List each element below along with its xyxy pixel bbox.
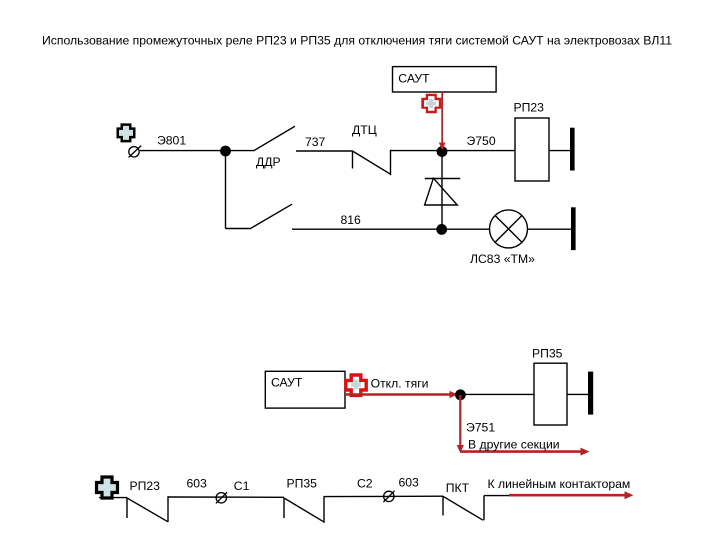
label РП35 (coil) — [532, 346, 563, 360]
svg-text:РП23: РП23 — [514, 100, 545, 114]
svg-text:Использование промежуточных ре: Использование промежуточных реле РП23 и … — [42, 34, 672, 48]
label Э750 — [467, 134, 496, 148]
label Э751 — [466, 421, 495, 435]
red signal wire САУТ to node B — [439, 92, 446, 150]
node C (junction dot) — [436, 224, 447, 235]
svg-text:ДТЦ: ДТЦ — [352, 123, 377, 137]
label 816 — [341, 213, 362, 227]
wire start bottom row — [99, 497, 127, 499]
title — [42, 34, 672, 48]
wire from node A down — [225, 151, 227, 229]
node D (junction dot) — [455, 389, 466, 400]
svg-text:С1: С1 — [234, 479, 250, 493]
contact ПКТ (break contact) — [443, 496, 484, 521]
svg-text:ЛС83 «ТМ»: ЛС83 «ТМ» — [470, 252, 535, 266]
red wire node D down (Э751) — [457, 395, 464, 453]
label 603 (right) — [399, 475, 420, 489]
wire РП35 to С2 — [324, 495, 443, 497]
ground bus bar (РП35 row) — [588, 372, 593, 415]
svg-text:САУТ: САУТ — [398, 71, 430, 85]
block САУТ (bottom) — [265, 371, 345, 408]
label В другие секции — [468, 438, 560, 452]
no-connection symbol Ø (С1) — [216, 492, 227, 503]
contact РП23 (break contact, bottom row) — [127, 496, 168, 522]
svg-text:К линейным контакторам: К линейным контакторам — [488, 477, 631, 491]
label Э801 — [157, 134, 186, 148]
red signal wire САУТ to node D — [345, 391, 458, 398]
label РП35 (bottom row) — [287, 476, 318, 490]
contact ДДР (open contact blade) — [226, 126, 353, 151]
red wire to line contactors with arrow — [509, 491, 634, 499]
svg-text:816: 816 — [341, 213, 362, 227]
label РП23 (bottom row) — [130, 479, 161, 493]
svg-text:РП35: РП35 — [532, 346, 563, 360]
wire node B to РП23 coil — [442, 150, 515, 152]
svg-text:РП23: РП23 — [130, 479, 161, 493]
svg-text:603: 603 — [187, 476, 208, 490]
svg-text:В другие секции: В другие секции — [468, 438, 560, 452]
connection marker cross red (bottom САУТ) — [346, 375, 366, 395]
wire РП35 coil to bus bar — [567, 393, 588, 395]
block САУТ (top) — [393, 67, 497, 92]
label 603 (left) — [187, 476, 208, 490]
wire node B down to diode — [441, 152, 443, 229]
label САУТ (bottom) — [271, 375, 303, 389]
svg-text:603: 603 — [399, 475, 420, 489]
relay coil РП35 — [534, 363, 567, 425]
svg-text:737: 737 — [305, 135, 326, 149]
label С1 — [234, 479, 250, 493]
relay coil РП23 — [515, 118, 549, 181]
contact 816 (open contact blade, lower branch) — [226, 204, 443, 229]
wire РП23 coil to bus bar — [549, 150, 570, 152]
diode (cathode bar and triangle) — [425, 178, 461, 205]
contact ДТЦ (break contact) — [353, 150, 391, 175]
wire ПКТ to red arrow — [484, 495, 510, 497]
node B (junction dot) — [437, 146, 448, 157]
svg-text:Э801: Э801 — [157, 134, 186, 148]
wire РП23 to С1 — [168, 496, 284, 498]
label Откл. тяги — [371, 377, 429, 391]
svg-text:Э750: Э750 — [467, 134, 496, 148]
label ДТЦ — [352, 123, 377, 137]
label 737 — [305, 135, 326, 149]
svg-text:С2: С2 — [357, 476, 373, 490]
svg-text:ПКТ: ПКТ — [446, 481, 470, 495]
connection marker cross (top-left) — [117, 123, 136, 142]
contact РП35 (break contact, bottom row) — [284, 496, 324, 523]
label К линейным контакторам — [488, 477, 631, 491]
ground bus bar (lamp row) — [571, 207, 576, 250]
svg-text:Откл. тяги: Откл. тяги — [371, 377, 429, 391]
no-connection symbol Ø (wire Э801 start) — [129, 146, 142, 158]
lamp ЛС83 ТМ — [490, 210, 528, 248]
wire lamp to bus bar — [528, 228, 572, 230]
wire node D to РП35 coil — [460, 393, 534, 395]
label РП23 — [514, 100, 545, 114]
wire Э801 — [140, 150, 226, 152]
label ДДР — [256, 155, 281, 169]
connection marker cross red (top САУТ) — [421, 94, 441, 114]
label ПКТ — [446, 481, 470, 495]
wire node C to lamp — [442, 228, 490, 230]
svg-text:САУТ: САУТ — [271, 375, 303, 389]
red wire to other sections with arrow — [460, 448, 589, 456]
label САУТ (top) — [398, 71, 430, 85]
wire ДТЦ to node B — [391, 150, 443, 152]
connection marker cross (bottom-left) — [97, 477, 118, 498]
svg-text:Э751: Э751 — [466, 421, 495, 435]
node A (junction dot) — [220, 146, 231, 157]
svg-text:ДДР: ДДР — [256, 155, 281, 169]
no-connection symbol Ø (С2) — [383, 491, 394, 502]
label С2 — [357, 476, 373, 490]
ground bus bar (РП23 row) — [570, 128, 575, 171]
label ЛС83 «ТМ» — [470, 252, 535, 266]
svg-text:РП35: РП35 — [287, 476, 318, 490]
